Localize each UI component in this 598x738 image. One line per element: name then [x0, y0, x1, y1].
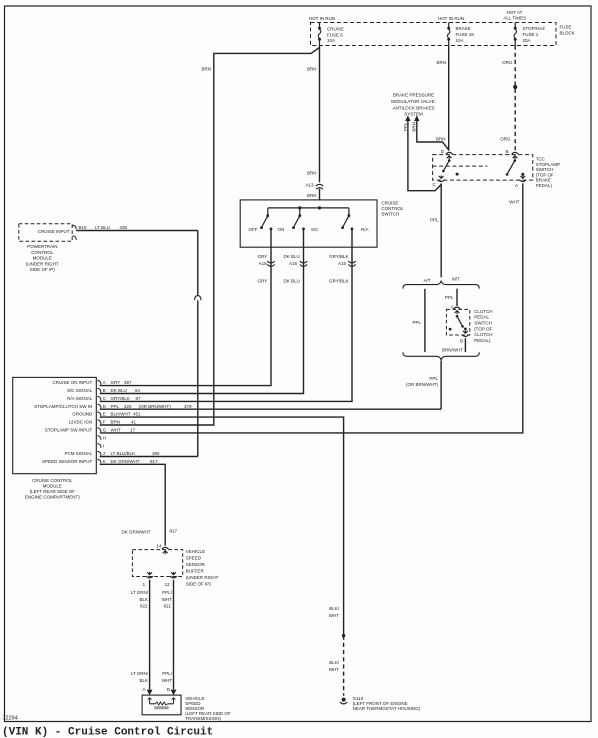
svg-text:420: 420 — [124, 404, 132, 409]
svg-text:ON: ON — [278, 227, 285, 232]
svg-text:BLOCK: BLOCK — [560, 30, 575, 35]
svg-text:PEDAL: PEDAL — [474, 315, 489, 320]
svg-text:BRN: BRN — [436, 137, 446, 142]
svg-text:GRY: GRY — [258, 278, 268, 283]
svg-text:DK GRN/WHT: DK GRN/WHT — [122, 530, 151, 535]
svg-text:R/A SIGNAL: R/A SIGNAL — [67, 396, 93, 401]
svg-text:LT GRN/: LT GRN/ — [131, 590, 149, 595]
svg-text:CRUISE ON INPUT: CRUISE ON INPUT — [53, 380, 93, 385]
svg-text:12: 12 — [165, 582, 171, 587]
svg-text:ORG: ORG — [500, 137, 511, 142]
svg-text:MODULE: MODULE — [43, 483, 62, 488]
svg-text:DK BLU: DK BLU — [111, 388, 127, 393]
svg-text:(LEFT REAR SIDE OF: (LEFT REAR SIDE OF — [30, 489, 76, 494]
svg-text:PEDAL): PEDAL) — [536, 183, 553, 188]
svg-text:PPL/: PPL/ — [162, 671, 173, 676]
svg-text:BRN: BRN — [307, 171, 317, 176]
svg-text:BRN: BRN — [201, 67, 211, 72]
svg-text:CRUISE: CRUISE — [381, 200, 398, 205]
svg-text:OFF: OFF — [249, 227, 258, 232]
svg-text:17: 17 — [130, 428, 136, 433]
svg-text:SPEED: SPEED — [186, 556, 202, 561]
svg-text:A: A — [103, 380, 106, 385]
svg-text:PPL: PPL — [445, 295, 454, 300]
svg-text:G: G — [103, 428, 107, 433]
svg-text:H: H — [103, 435, 106, 440]
svg-text:386: 386 — [152, 451, 160, 456]
svg-text:84: 84 — [135, 388, 141, 393]
svg-text:DK GRN/WHT: DK GRN/WHT — [111, 459, 140, 464]
svg-text:CRUISE INPUT: CRUISE INPUT — [38, 229, 70, 234]
svg-text:FUSE 18: FUSE 18 — [456, 32, 475, 37]
svg-text:(OR BRN/WHT): (OR BRN/WHT) — [406, 382, 438, 387]
svg-text:GRY/BLK: GRY/BLK — [329, 278, 348, 283]
svg-text:M/T: M/T — [452, 276, 460, 281]
svg-text:STOPLAMP SW INPUT: STOPLAMP SW INPUT — [45, 428, 93, 433]
svg-text:SIDE OF IP): SIDE OF IP) — [186, 582, 212, 587]
svg-text:CRUISE: CRUISE — [327, 27, 344, 32]
svg-text:BRN: BRN — [307, 67, 317, 72]
svg-text:PEDAL): PEDAL) — [474, 338, 491, 343]
svg-text:STOP/HAZ: STOP/HAZ — [523, 26, 546, 31]
svg-text:ORG: ORG — [502, 60, 513, 65]
svg-text:DK BLU: DK BLU — [284, 278, 300, 283]
svg-text:BRN/WHT: BRN/WHT — [442, 347, 463, 352]
svg-text:BRAKE: BRAKE — [536, 178, 551, 183]
svg-text:(UNDER RIGHT: (UNDER RIGHT — [186, 575, 219, 580]
svg-text:LT BLU/BLK: LT BLU/BLK — [111, 451, 136, 456]
svg-text:PPL: PPL — [403, 122, 408, 131]
svg-text:A/T: A/T — [423, 278, 430, 283]
svg-text:HOT IN RUN: HOT IN RUN — [438, 16, 464, 21]
svg-text:PPL: PPL — [111, 404, 120, 409]
svg-text:SENSOR: SENSOR — [186, 562, 206, 567]
svg-text:PCM SIGNAL: PCM SIGNAL — [65, 451, 93, 456]
svg-text:A18: A18 — [259, 261, 268, 266]
svg-text:A: A — [142, 687, 145, 692]
svg-text:BUFFER: BUFFER — [186, 569, 205, 574]
svg-text:PPL: PPL — [430, 217, 439, 222]
svg-text:LT GRN/: LT GRN/ — [131, 671, 149, 676]
svg-text:FUSE 1: FUSE 1 — [523, 32, 539, 37]
svg-text:FUSE 6: FUSE 6 — [327, 32, 343, 37]
svg-text:HOT IN RUN: HOT IN RUN — [309, 16, 335, 21]
svg-text:817: 817 — [170, 529, 178, 534]
svg-text:SPEED SENSOR INPUT: SPEED SENSOR INPUT — [42, 459, 93, 464]
svg-text:821: 821 — [163, 604, 171, 609]
svg-text:MODULATOR VALVE:: MODULATOR VALVE: — [391, 99, 436, 104]
svg-text:FUSE: FUSE — [560, 24, 572, 29]
svg-text:41: 41 — [131, 420, 137, 425]
svg-text:BLK: BLK — [139, 597, 148, 602]
svg-text:BRN: BRN — [412, 122, 417, 132]
svg-text:336: 336 — [120, 225, 128, 230]
svg-text:WHT: WHT — [509, 200, 519, 205]
svg-text:B19: B19 — [79, 225, 88, 230]
svg-text:ANTILOCK BRAKES: ANTILOCK BRAKES — [392, 105, 434, 110]
svg-text:HOT AT: HOT AT — [507, 10, 523, 15]
svg-text:F: F — [103, 420, 106, 425]
svg-text:GRY: GRY — [258, 254, 268, 259]
svg-text:STOPLAMP/CLUTCH SW IN: STOPLAMP/CLUTCH SW IN — [34, 404, 92, 409]
svg-text:A: A — [451, 304, 454, 309]
svg-text:BLK: BLK — [139, 678, 148, 683]
svg-text:BRN: BRN — [436, 60, 446, 65]
svg-text:451: 451 — [133, 412, 141, 417]
svg-text:822: 822 — [140, 604, 148, 609]
svg-text:GROUND: GROUND — [72, 412, 93, 417]
svg-text:WHT: WHT — [329, 613, 339, 618]
svg-text:14: 14 — [156, 543, 162, 548]
svg-text:VEHICLE: VEHICLE — [186, 549, 205, 554]
svg-text:(OR BRN/WHT): (OR BRN/WHT) — [139, 404, 171, 409]
svg-text:PPL: PPL — [429, 376, 438, 381]
svg-text:BRAKE PRESSURE: BRAKE PRESSURE — [393, 93, 434, 98]
svg-text:WHT: WHT — [162, 597, 172, 602]
svg-text:A15: A15 — [338, 261, 347, 266]
svg-text:CLUTCH: CLUTCH — [474, 332, 492, 337]
svg-text:I: I — [103, 443, 104, 448]
svg-text:(TOP OF: (TOP OF — [474, 326, 492, 331]
svg-text:BRN: BRN — [111, 420, 121, 425]
svg-text:S/C: S/C — [311, 227, 319, 232]
svg-text:(TOP OF: (TOP OF — [536, 172, 554, 177]
svg-text:K: K — [103, 459, 106, 464]
svg-text:SWITCH: SWITCH — [381, 211, 399, 216]
svg-text:S/C SIGNAL: S/C SIGNAL — [67, 388, 93, 393]
svg-text:87: 87 — [136, 396, 142, 401]
svg-text:TCC: TCC — [536, 157, 546, 162]
svg-text:PPL/: PPL/ — [162, 590, 173, 595]
svg-text:12VDC IGN: 12VDC IGN — [69, 420, 93, 425]
svg-text:GRY/BLK: GRY/BLK — [329, 254, 348, 259]
svg-text:B: B — [505, 149, 508, 154]
svg-text:DK BLU: DK BLU — [284, 254, 300, 259]
svg-text:(VIN K) - Cruise Control Circu: (VIN K) - Cruise Control Circuit — [2, 727, 213, 738]
svg-text:J: J — [103, 451, 105, 456]
svg-text:SWITCH: SWITCH — [474, 321, 492, 326]
svg-text:LT BLU: LT BLU — [95, 225, 110, 230]
svg-text:GRY/BLK: GRY/BLK — [111, 396, 130, 401]
svg-text:SWITCH: SWITCH — [536, 167, 554, 172]
svg-text:CONTROL: CONTROL — [31, 250, 53, 255]
svg-text:A: A — [515, 183, 518, 188]
svg-text:B: B — [103, 388, 106, 393]
svg-text:STOPLAMP: STOPLAMP — [536, 162, 560, 167]
svg-text:BLK/: BLK/ — [329, 606, 340, 611]
svg-text:CLUTCH: CLUTCH — [474, 309, 492, 314]
svg-text:MODULE: MODULE — [33, 256, 52, 261]
svg-text:R/A: R/A — [361, 227, 369, 232]
svg-text:WHT: WHT — [111, 428, 121, 433]
svg-text:CRUISE CONTROL: CRUISE CONTROL — [32, 478, 73, 483]
svg-text:TRANSMISSION): TRANSMISSION) — [185, 716, 221, 721]
svg-text:72294: 72294 — [3, 716, 18, 722]
svg-text:10A: 10A — [327, 38, 335, 43]
svg-text:817: 817 — [150, 459, 158, 464]
svg-text:CONTROL: CONTROL — [381, 206, 403, 211]
svg-text:ENGINE COMPARTMENT): ENGINE COMPARTMENT) — [25, 494, 80, 499]
svg-text:A13: A13 — [305, 183, 314, 188]
svg-text:E: E — [103, 412, 106, 417]
svg-text:SIDE OF IP): SIDE OF IP) — [30, 267, 56, 272]
svg-text:379: 379 — [184, 404, 192, 409]
svg-text:ALL TIMES: ALL TIMES — [503, 16, 526, 21]
svg-text:10A: 10A — [456, 38, 464, 43]
svg-text:20A: 20A — [523, 38, 531, 43]
svg-text:B: B — [167, 687, 170, 692]
svg-text:BRAKE: BRAKE — [456, 26, 471, 31]
svg-text:GRY: GRY — [111, 380, 121, 385]
svg-text:397: 397 — [124, 380, 132, 385]
svg-text:BLK/: BLK/ — [329, 660, 340, 665]
svg-text:BLK/WHT: BLK/WHT — [111, 412, 131, 417]
svg-text:POWERTRAIN: POWERTRAIN — [27, 244, 57, 249]
svg-text:A16: A16 — [289, 261, 298, 266]
svg-text:BRN: BRN — [307, 193, 317, 198]
svg-text:NEAR THERMOSTAT HOUSING): NEAR THERMOSTAT HOUSING) — [353, 706, 421, 711]
svg-text:(UNDER RIGHT: (UNDER RIGHT — [26, 261, 59, 266]
svg-text:SYSTEM: SYSTEM — [404, 112, 423, 117]
svg-text:B: B — [460, 338, 463, 343]
svg-text:WHT: WHT — [329, 667, 339, 672]
svg-text:WHT: WHT — [162, 678, 172, 683]
svg-text:PPL: PPL — [412, 320, 421, 325]
